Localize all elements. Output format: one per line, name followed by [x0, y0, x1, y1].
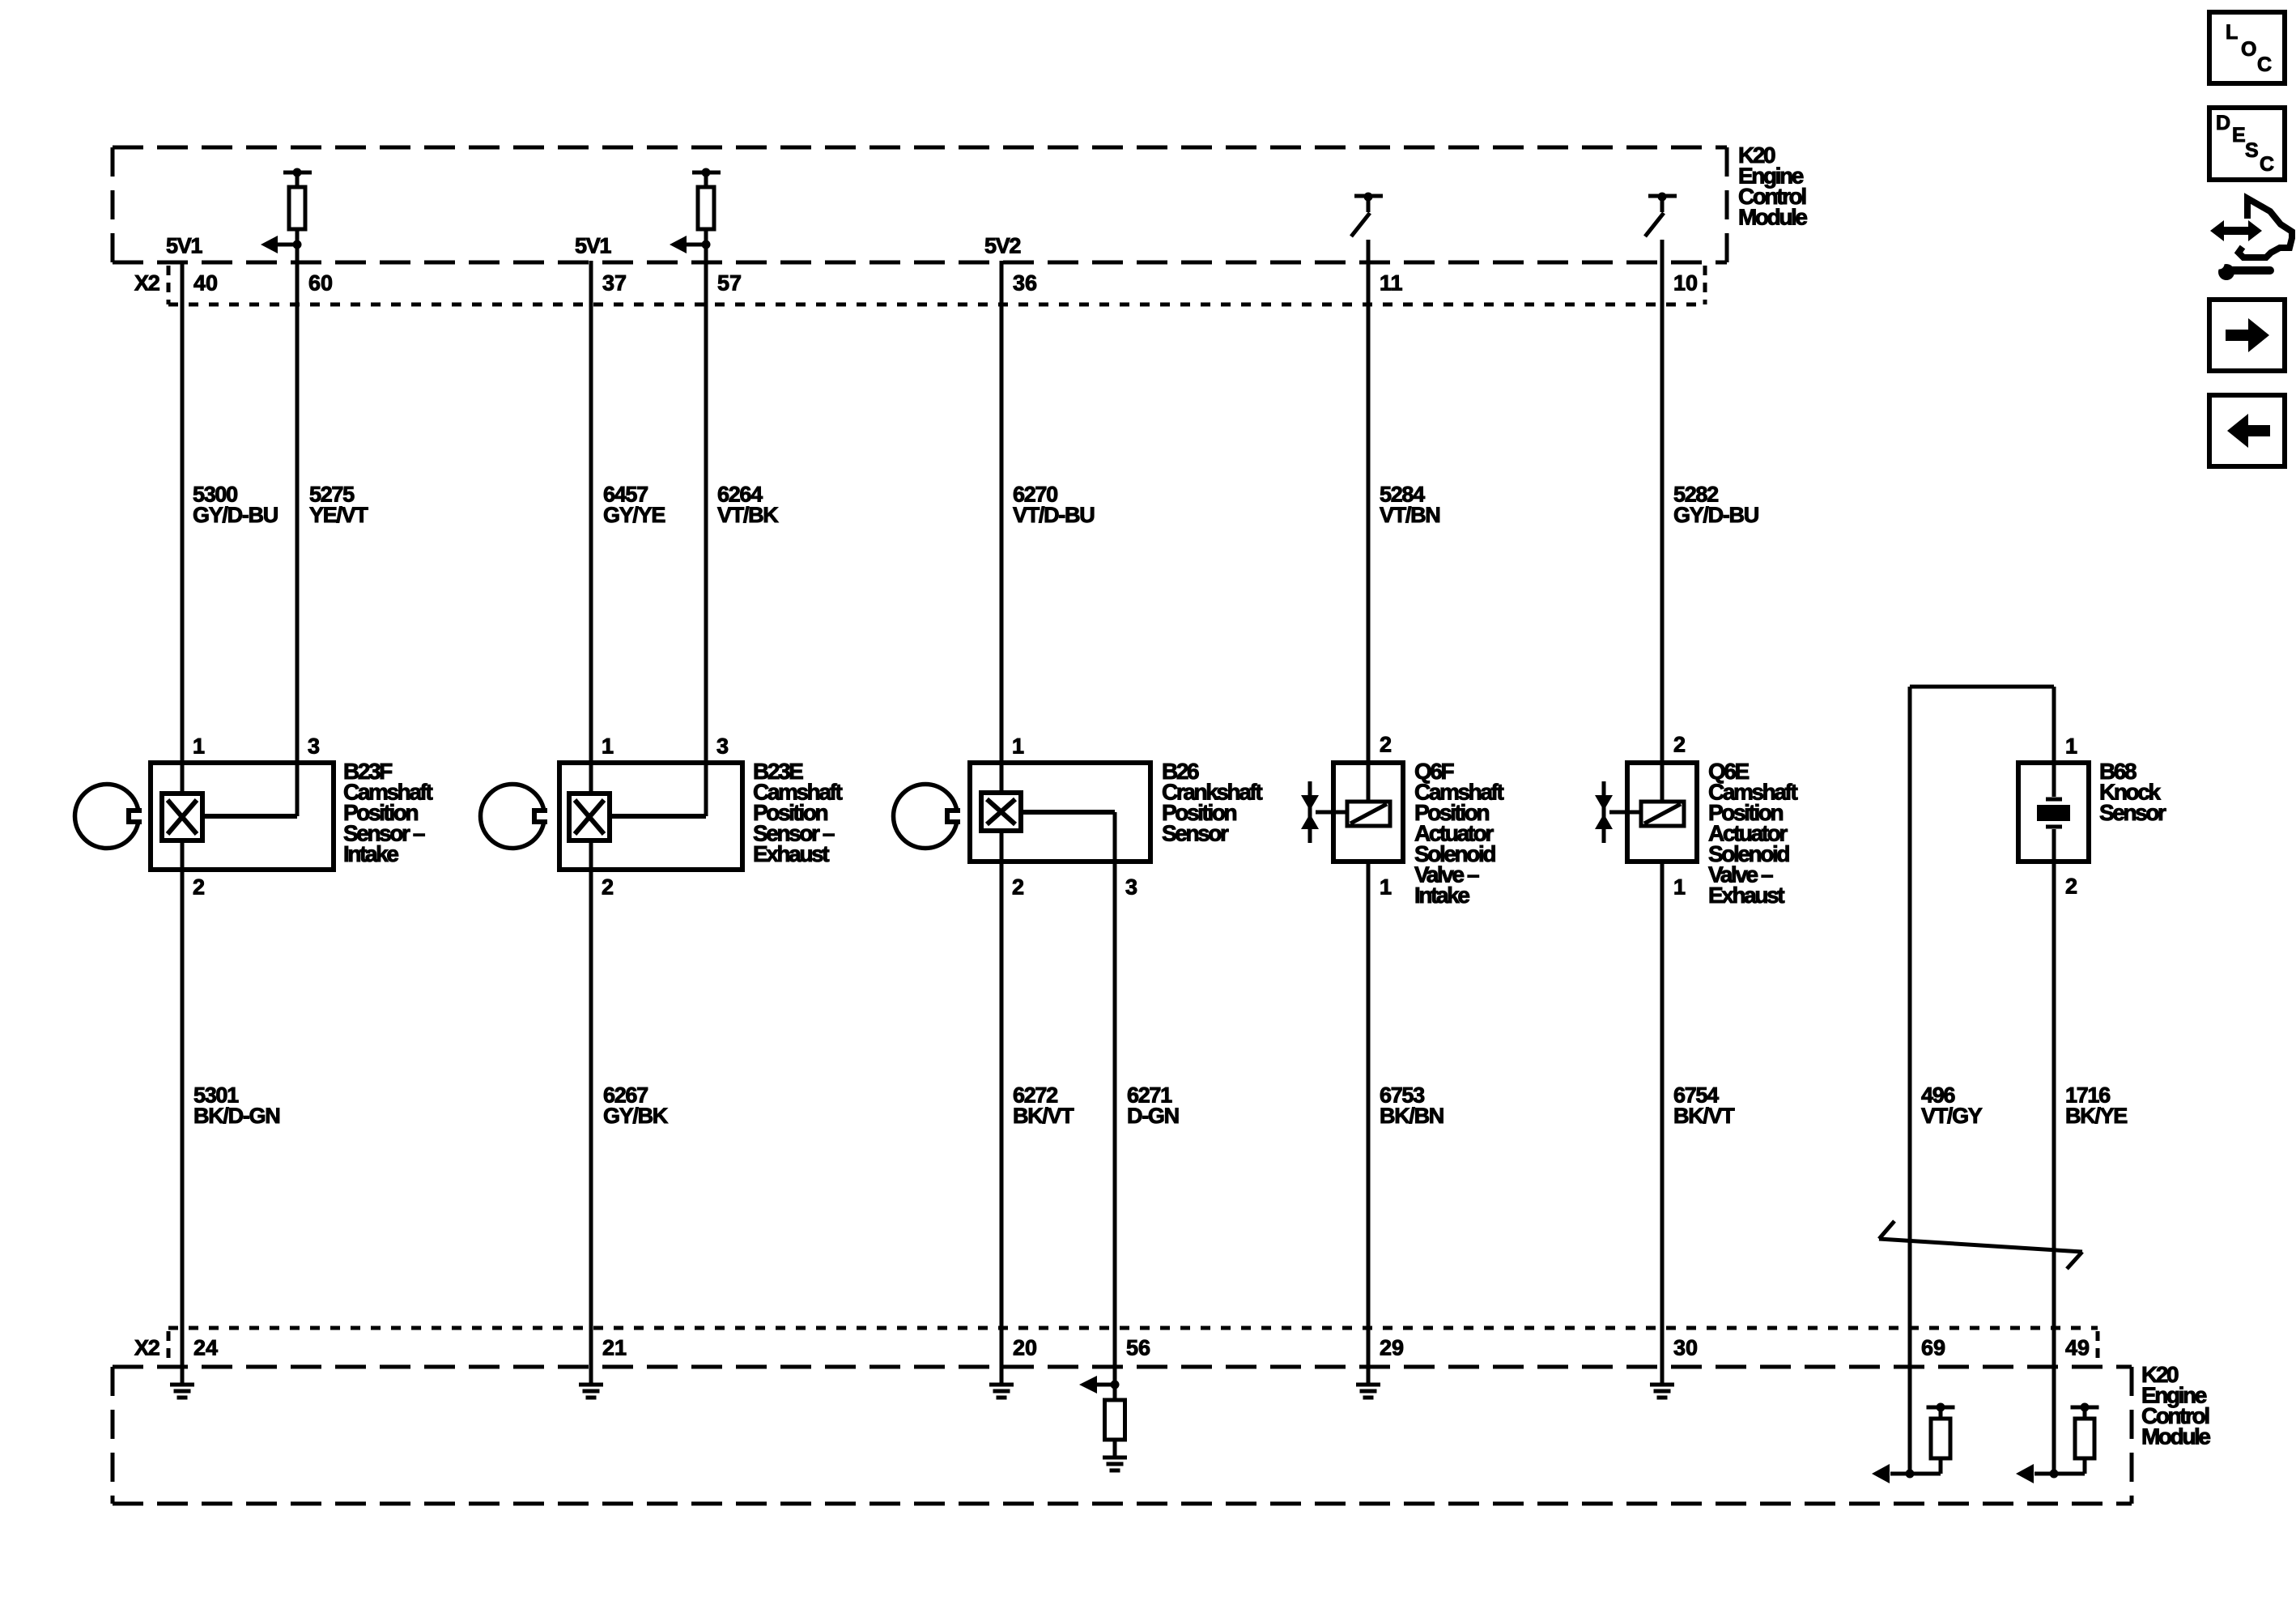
wire 1716 BK/YE (B68 pin 2 to ECM pin 49)	[2052, 829, 2056, 862]
K20 Engine Control Module label (top)	[1738, 143, 1807, 230]
svg-text:X2: X2	[134, 1336, 159, 1360]
svg-text:49: 49	[2065, 1336, 2090, 1360]
Q6E Camshaft Position Actuator Solenoid Valve - Exhaust label	[1708, 759, 1797, 908]
wire 5282 GY/D-BU (pin 10 to Q6E pin 2)	[1660, 240, 1665, 802]
svg-text:D: D	[2216, 112, 2230, 134]
arrow (to ECM logic) at bottom pin wire x=2359	[1872, 1464, 1915, 1483]
svg-text:1: 1	[2065, 734, 2077, 759]
wire 6272 BK/VT (B26 pin 2 to ECM pin 20)	[1000, 831, 1004, 1385]
svg-text:Module: Module	[2141, 1424, 2210, 1449]
wire (pin 56 resistor to ground)	[1113, 1440, 1117, 1457]
wire 6754 BK/VT (Q6E pin 1 to ECM pin 30)	[1660, 862, 1665, 1385]
svg-text:BK/BN: BK/BN	[1380, 1104, 1444, 1128]
svg-text:3: 3	[716, 734, 729, 759]
B26 Crankshaft Position Sensor label	[1162, 759, 1262, 845]
B23E Camshaft Position Sensor - Exhaust label	[753, 759, 842, 866]
svg-text:56: 56	[1126, 1336, 1150, 1360]
wire label 6264 VT/BK	[717, 483, 779, 528]
wire label 6457 GY/YE	[603, 483, 665, 528]
wire 6753 BK/BN (Q6F pin 1 to ECM pin 29)	[1367, 862, 1371, 1385]
svg-text:20: 20	[1013, 1336, 1037, 1360]
twisted-pair crossing mark (496/1716)	[1879, 1221, 2082, 1269]
svg-text:1: 1	[1673, 875, 1686, 900]
valve symbol (Q6F)	[1301, 781, 1319, 843]
solenoid coil (Q6F)	[1347, 802, 1390, 826]
connector X2 left boundary (top)	[167, 266, 171, 304]
camshaft position sensor B23E outer box	[559, 763, 742, 870]
svg-text:3: 3	[1125, 875, 1137, 900]
wire label 6753 BK/BN	[1380, 1083, 1444, 1129]
svg-text:Intake: Intake	[343, 841, 398, 866]
svg-text:2: 2	[1380, 733, 1392, 757]
sensing element (B23E)	[569, 794, 610, 840]
wire (loop top, 496 circuit)	[1910, 685, 2054, 689]
crankshaft position sensor B26 outer box	[970, 763, 1150, 862]
wire label 6272 BK/VT	[1013, 1083, 1074, 1129]
svg-text:60: 60	[308, 271, 333, 296]
svg-text:Exhaust: Exhaust	[753, 841, 829, 866]
ground (ECM internal, pin 56)	[1103, 1457, 1127, 1470]
resistor (ECM internal) near bottom pin wire x=2359	[1910, 1403, 1955, 1474]
svg-text:BK/VT: BK/VT	[1673, 1104, 1735, 1128]
svg-text:24: 24	[193, 1336, 218, 1360]
arrow (signal to ECM logic) at pin wire x=872	[670, 236, 711, 253]
svg-text:36: 36	[1013, 271, 1037, 296]
piezo element (B68)	[2037, 799, 2070, 827]
resistor (ECM internal pull-up on pin wire x=367)	[283, 168, 312, 245]
B68 Knock Sensor label	[2099, 759, 2166, 825]
wire label 496 VT/GY	[1921, 1083, 1983, 1129]
svg-text:Module: Module	[1738, 205, 1807, 230]
wire (B23E internal link pin3)	[610, 814, 706, 819]
svg-text:YE/VT: YE/VT	[309, 503, 368, 527]
svg-text:57: 57	[717, 271, 742, 296]
svg-text:2: 2	[1012, 875, 1024, 900]
connector X2 right boundary (bottom)	[2096, 1331, 2100, 1362]
reluctor circle (B23F)	[75, 785, 148, 849]
wire label 6271 D-GN	[1127, 1083, 1179, 1129]
svg-text:29: 29	[1380, 1336, 1404, 1360]
icon: arrow right box	[2209, 300, 2285, 371]
wire label 5275 YE/VT	[309, 483, 368, 528]
wire 6270 VT/D-BU (pin 36 to B26 pin 1)	[1000, 261, 1004, 793]
svg-text:GY/D-BU: GY/D-BU	[193, 503, 278, 527]
svg-text:1: 1	[1380, 875, 1392, 900]
wire label 1716 BK/YE	[2065, 1083, 2127, 1129]
wire 6271 D-GN (B26 pin 3 to ECM pin 56)	[1113, 812, 1117, 1400]
svg-text:10: 10	[1673, 271, 1698, 296]
ground (ECM pin 20)	[989, 1385, 1014, 1398]
wire (B26 internal link pin3)	[1021, 810, 1115, 815]
Q6F Camshaft Position Actuator Solenoid Valve - Intake label	[1414, 759, 1503, 908]
wire (B23F internal link pin3)	[202, 814, 297, 819]
svg-text:40: 40	[193, 271, 218, 296]
ground (ECM pin 30)	[1650, 1385, 1674, 1398]
wire 5275 YE/VT (pin 60 to B23F pin 3)	[296, 245, 300, 816]
camshaft actuator solenoid Q6E outer box	[1627, 763, 1697, 862]
switch (ECM low-side driver) on pin wire x=1690	[1351, 193, 1383, 237]
reluctor circle (B26)	[894, 785, 967, 849]
ECM K20 dashed box (top)	[113, 147, 1727, 262]
svg-text:2: 2	[2065, 874, 2077, 899]
resistor (ECM internal) near bottom pin wire x=2537	[2054, 1403, 2099, 1474]
svg-text:Intake: Intake	[1414, 883, 1469, 908]
svg-text:BK/D-GN: BK/D-GN	[193, 1104, 279, 1128]
svg-text:1: 1	[193, 734, 205, 759]
wire 496 VT/GY (loop left leg to ECM pin 69)	[1908, 687, 1912, 1474]
wire 6264 VT/BK (pin 57 to B23E pin 3)	[704, 245, 708, 816]
wire 5301 BK/D-GN (B23F pin 2 to ECM pin 24)	[181, 840, 185, 1385]
wire 6267 GY/BK (B23E pin 2 to ECM pin 21)	[589, 840, 593, 1385]
wire label 6267 GY/BK	[603, 1083, 669, 1129]
svg-text:30: 30	[1673, 1336, 1698, 1360]
svg-text:21: 21	[602, 1336, 627, 1360]
ECM K20 dashed box (bottom)	[113, 1367, 2132, 1504]
switch (ECM low-side driver) on pin wire x=2053	[1645, 193, 1677, 237]
wire label 6270 VT/D-BU	[1013, 483, 1094, 528]
arrow (signal to ECM logic) at pin wire x=367	[261, 236, 302, 253]
wire label 5301 BK/D-GN	[193, 1083, 279, 1129]
wire label 5284 VT/BN	[1380, 483, 1440, 528]
svg-text:C: C	[2257, 53, 2272, 76]
sensing element (B23F)	[162, 794, 202, 840]
wire (loop right leg to B68 pin 1)	[2052, 687, 2056, 797]
wire 5284 VT/BN (pin 11 to Q6F pin 2)	[1367, 240, 1371, 802]
svg-text:BK/VT: BK/VT	[1013, 1104, 1074, 1128]
svg-text:1: 1	[602, 734, 614, 759]
svg-text:2: 2	[1673, 733, 1686, 757]
arrow (to ECM logic) at pin 56	[1079, 1376, 1120, 1394]
svg-text:37: 37	[602, 271, 627, 296]
svg-text:2: 2	[193, 875, 205, 900]
svg-text:69: 69	[1921, 1336, 1945, 1360]
svg-text:3: 3	[308, 734, 320, 759]
wire 5300 GY/D-BU (pin 40 to B23F pin 1)	[181, 261, 185, 794]
svg-text:S: S	[2245, 139, 2259, 162]
svg-text:C: C	[2260, 153, 2274, 176]
resistor (ECM internal pull-up on pin wire x=872)	[692, 168, 721, 245]
svg-text:GY/D-BU: GY/D-BU	[1673, 503, 1758, 527]
svg-text:GY/BK: GY/BK	[603, 1104, 669, 1128]
knock sensor B68 outer box	[2018, 763, 2089, 862]
arrow (to ECM logic) at bottom pin wire x=2537	[2016, 1464, 2059, 1483]
connector X2 band (bottom): dotted line	[168, 1326, 2098, 1330]
svg-text:D-GN: D-GN	[1127, 1104, 1179, 1128]
ground (ECM pin 29)	[1356, 1385, 1380, 1398]
sensing element (B26)	[981, 793, 1021, 831]
svg-text:Exhaust: Exhaust	[1708, 883, 1784, 908]
reluctor circle (B23E)	[481, 785, 554, 849]
svg-text:2: 2	[602, 875, 614, 900]
icon: connector view (car with double arrow and wrench)	[2210, 198, 2292, 280]
svg-text:VT/BN: VT/BN	[1380, 503, 1440, 527]
wire (valve tick Q6E)	[1609, 811, 1641, 815]
svg-text:5V1: 5V1	[575, 234, 611, 258]
svg-text:Sensor: Sensor	[2099, 800, 2166, 825]
svg-text:BK/YE: BK/YE	[2065, 1104, 2127, 1128]
connector X2 right boundary (top)	[1703, 266, 1707, 304]
wire 6457 GY/YE (pin 37 to B23E pin 1)	[589, 261, 593, 794]
svg-text:5V2: 5V2	[984, 234, 1020, 258]
icon: arrow left box	[2209, 395, 2285, 466]
svg-text:5V1: 5V1	[166, 234, 202, 258]
svg-text:X2: X2	[134, 271, 159, 296]
connector X2 left boundary (bottom)	[167, 1331, 171, 1367]
svg-text:GY/YE: GY/YE	[603, 503, 665, 527]
svg-text:Sensor: Sensor	[1162, 821, 1229, 846]
svg-text:VT/GY: VT/GY	[1921, 1104, 1983, 1128]
wire label 5300 GY/D-BU	[193, 483, 278, 528]
svg-text:VT/D-BU: VT/D-BU	[1013, 503, 1094, 527]
valve symbol (Q6E)	[1595, 781, 1613, 843]
svg-text:O: O	[2241, 38, 2256, 61]
camshaft actuator solenoid Q6F outer box	[1333, 763, 1403, 862]
connector X2 band (top): dotted line	[168, 303, 1705, 307]
B23F Camshaft Position Sensor - Intake label	[343, 759, 432, 866]
camshaft position sensor B23F outer box	[151, 763, 334, 870]
solenoid coil (Q6E)	[1641, 802, 1684, 826]
K20 Engine Control Module label (bottom)	[2141, 1362, 2210, 1449]
svg-text:11: 11	[1380, 271, 1403, 296]
svg-text:VT/BK: VT/BK	[717, 503, 779, 527]
wire label 6754 BK/VT	[1673, 1083, 1735, 1129]
resistor (ECM internal, pin 56)	[1105, 1400, 1125, 1440]
icon: LOC box	[2209, 12, 2285, 83]
wire label 5282 GY/D-BU	[1673, 483, 1758, 528]
ground (ECM pin 21)	[579, 1385, 603, 1398]
icon: DESC box	[2209, 108, 2285, 180]
ground (ECM pin 24)	[170, 1385, 194, 1398]
svg-text:E: E	[2232, 124, 2246, 147]
wire (valve tick Q6F)	[1316, 811, 1347, 815]
svg-text:L: L	[2226, 21, 2238, 44]
svg-text:1: 1	[1012, 734, 1024, 759]
